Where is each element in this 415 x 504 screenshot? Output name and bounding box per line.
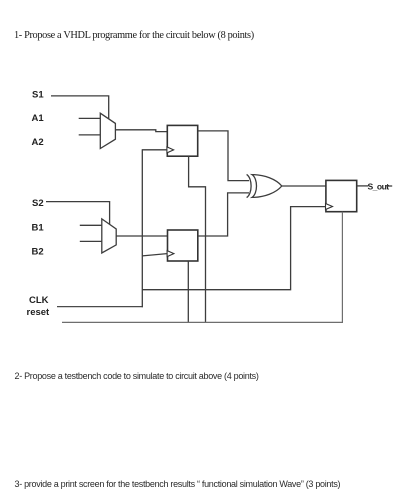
svg-text:S1: S1 [32,89,44,100]
question 2 text [15,371,259,381]
wire mux M2 output to D input of flip-flop U2 [116,235,167,237]
xor gate G1 input arc [247,174,252,197]
wire CLK label stub [57,306,143,308]
flip-flop U3 [326,180,357,211]
wire CLK trunk to U1 clock [142,149,167,151]
wire U1 Q output to XOR top input [198,131,249,181]
wire B1 to mux M2 [80,224,102,226]
svg-text:B1: B1 [32,223,45,234]
flip-flop U2 [168,230,198,261]
wire A1 to mux M1 [79,117,101,119]
svg-text:CLK: CLK [29,295,49,306]
wire U1 bottom pin down and around to reset line [189,156,206,322]
flip-flop U3 clock pin [326,204,333,210]
svg-text:B2: B2 [32,246,44,257]
xor gate G1 body [252,175,282,198]
svg-text:reset: reset [27,307,51,318]
mux M1 [100,113,115,148]
flip-flop U2 clock pin [167,251,174,257]
flip-flop U1 clock pin [167,147,174,153]
svg-text:A1: A1 [32,113,45,124]
svg-text:S2: S2 [32,198,44,209]
wire U3 Q output to S_out [357,185,368,187]
flip-flop U1 [167,125,197,156]
wire CLK branch to U3 clock [142,207,325,290]
wire U2 bottom pin down to reset line [187,261,189,322]
wire XOR output to D input of flip-flop U3 [282,185,326,187]
mux M2 [102,219,116,253]
wire B2 to mux M2 [80,240,102,242]
wire mux M1 output to D input of flip-flop U1 [115,130,167,132]
wire reset line to U3 bottom pin [62,212,342,323]
wire CLK trunk to U2 clock [142,254,167,256]
svg-text:A2: A2 [32,137,44,148]
wire S2 to mux M2 select [46,202,110,225]
wire U2 Q output up to XOR bottom input [198,193,249,236]
question 3 text [15,479,341,489]
wire stub after S_out label [387,185,393,187]
wire S1 to mux M1 select [51,96,109,120]
question 1 text [14,30,254,41]
wire CLK vertical trunk [141,149,143,307]
svg-text:S_out: S_out [368,181,390,191]
wire A2 to mux M1 [79,134,101,136]
